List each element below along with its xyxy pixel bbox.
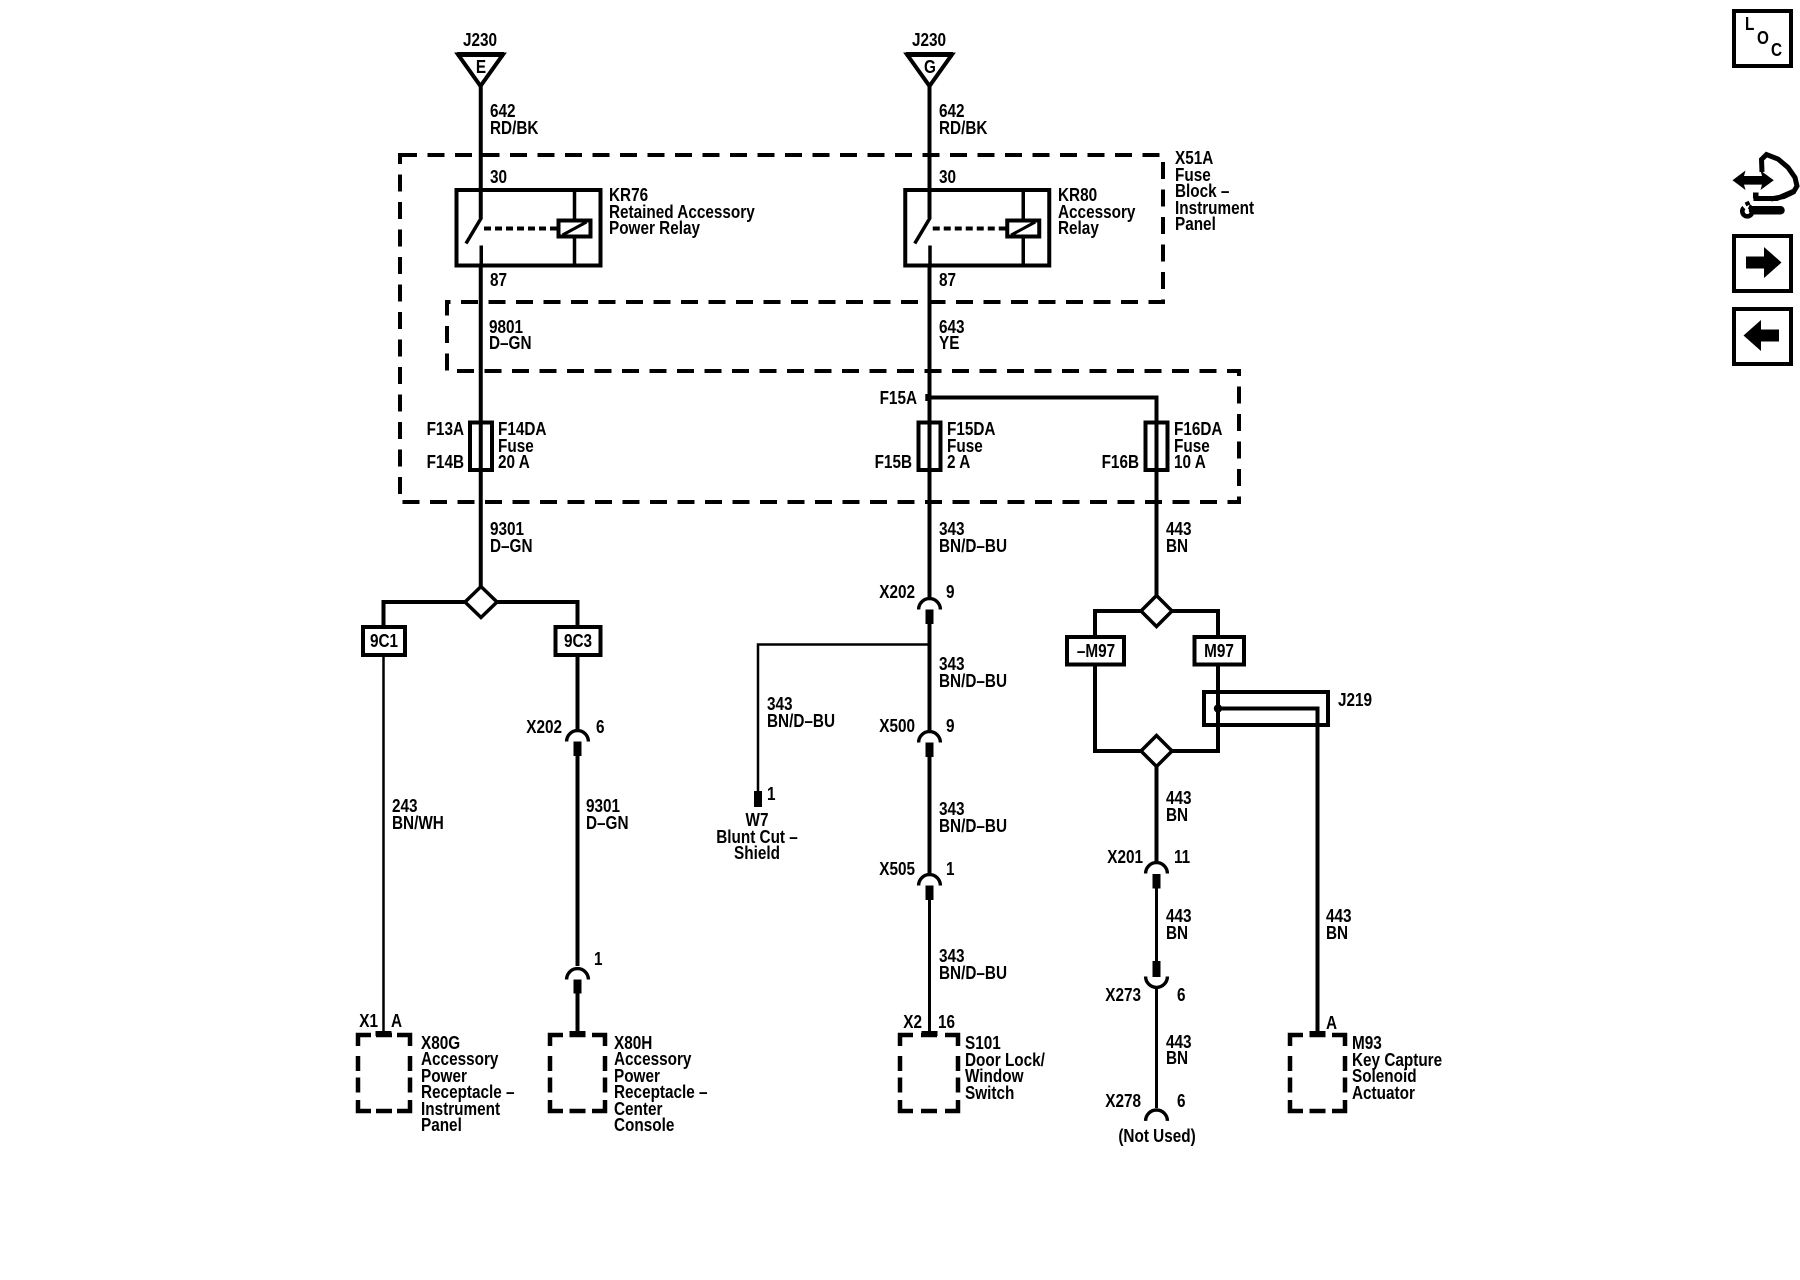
label wire 343 BN/D-BU below X202	[939, 656, 1007, 689]
connector pin 1 symbol above X80H	[567, 969, 589, 994]
connector X278 pin 6 symbol (not used)	[1146, 1110, 1168, 1121]
label connector X202 pin 9	[745, 584, 915, 601]
wire 343 BN/D-BU fuse F15DA to connector X202 pin 9	[928, 470, 932, 598]
wire 443 BN fuse F16DA to splice diamond	[1155, 470, 1159, 596]
wire splice to M97	[1172, 611, 1218, 637]
pin tick at X80G	[376, 1031, 392, 1036]
label X1 pin A	[208, 1013, 378, 1030]
connector X505 pin 1 symbol	[919, 875, 941, 900]
label G in triangle	[845, 59, 1015, 76]
label wire 443 BN below X273	[1166, 1034, 1192, 1067]
label X2 pin 16	[752, 1014, 922, 1031]
wire branch 343 BN/D-BU to W7	[758, 645, 930, 792]
label W7 blunt cut shield	[672, 812, 842, 862]
label wire 343 BN/D-BU below X500	[939, 801, 1007, 834]
label connector X278 pin 6	[971, 1093, 1141, 1110]
pin tick at X80H	[570, 1031, 586, 1036]
wire 443 BN splice to X201	[1155, 767, 1159, 863]
component box -M97	[1067, 637, 1124, 665]
W7 blunt cut terminal bar	[754, 791, 762, 807]
nav icon lower swoosh	[1754, 192, 1794, 199]
component S101 dashed box	[900, 1035, 958, 1111]
label F15A	[747, 390, 917, 407]
component X80H dashed box	[550, 1035, 605, 1111]
label 9C1	[299, 633, 469, 650]
wire 643 YE relay KR80 pin 87 to fuse F15DA	[928, 266, 932, 423]
relay KR80 fixed contact stub	[928, 246, 932, 266]
LOC box icon	[1734, 11, 1791, 66]
label relay KR76	[609, 187, 755, 237]
label J230 (E)	[463, 32, 497, 49]
connector X201 pin 11 symbol	[1146, 863, 1168, 889]
wire 9301 D-GN fuse F14DA to splice diamond	[479, 470, 483, 587]
label actuator M93	[1352, 1035, 1442, 1101]
fuse F16DA	[1146, 423, 1168, 471]
label F13A	[294, 421, 464, 438]
label pin 30 KR76	[490, 169, 507, 186]
label LOC letters	[1745, 16, 1754, 33]
label wire 443 BN below splice	[1166, 790, 1192, 823]
wire -M97 to lower splice	[1095, 665, 1141, 752]
label pin 30 KR80	[939, 169, 956, 186]
fuse block X51A dashed outline	[400, 155, 1239, 502]
nav icon double-headed arrow	[1733, 171, 1774, 191]
wire splice to -M97	[1095, 611, 1141, 637]
label connector X201 pin 11	[973, 849, 1143, 866]
label M97	[1134, 643, 1304, 660]
label wire 9801 D-GN	[489, 319, 532, 352]
label M93 pin A	[1326, 1015, 1337, 1032]
relay KR76 coil slash	[563, 222, 587, 235]
label wire 642 RD/BK left	[490, 103, 538, 136]
connector box 9C3	[556, 627, 601, 655]
label connector X505 pin 1	[745, 861, 915, 878]
label connector X500 pin 9	[745, 718, 915, 735]
label receptacle X80H	[614, 1035, 708, 1134]
label pin 87 KR76	[490, 272, 507, 289]
wire 642 RD/BK from J230 E to relay KR76 pin 30	[479, 86, 483, 190]
splice diamond top right column	[1141, 596, 1172, 627]
junction dot J219	[1214, 704, 1222, 712]
relay KR80 actuation dashed link	[933, 227, 1006, 231]
label wire 642 RD/BK right	[939, 103, 987, 136]
relay KR80 coil box	[1007, 221, 1039, 237]
splice pack J230 G triangle	[906, 55, 953, 87]
label connector X273 pin 6	[971, 987, 1141, 1004]
label fuse F15DA	[947, 421, 995, 471]
connector box 9C1	[363, 627, 405, 655]
label F14B	[294, 454, 464, 471]
splice pack J230 E triangle	[457, 55, 504, 87]
label wire 343 BN/D-BU W7 branch	[767, 696, 835, 729]
label wire 443 BN J219 branch	[1326, 908, 1352, 941]
relay KR80 coil slash	[1011, 222, 1035, 235]
relay KR80 switch blade	[915, 218, 931, 244]
relay KR76 actuation dashed link	[484, 227, 557, 231]
label F15B	[742, 454, 912, 471]
relay KR76 coil box	[559, 221, 591, 237]
relay KR76 fixed contact stub	[480, 246, 484, 266]
label wire 343 BN/D-BU first	[939, 521, 1007, 554]
wire J219 internal to M93 drop	[1218, 709, 1318, 1034]
label -M97	[1011, 643, 1181, 660]
relay KR80 coil feed wires	[1022, 190, 1026, 221]
wire 9801 D-GN relay KR76 pin 87 to fuse F14DA	[479, 266, 483, 423]
label switch S101	[965, 1035, 1045, 1101]
wire 443 BN X273 to X278	[1155, 989, 1158, 1108]
fuse F15DA	[919, 423, 941, 471]
label receptacle X80G	[421, 1035, 515, 1134]
wire branch F15A to fuse F16DA	[928, 398, 1157, 423]
relay KR76 box	[457, 190, 601, 266]
wire 343 BN/D-BU X505 to S101	[928, 900, 931, 1033]
relay KR80 switch pin wire	[928, 190, 932, 218]
wire splice to 9C3	[497, 602, 578, 627]
label F16B	[969, 454, 1139, 471]
wire 343 BN/D-BU X202 to X500	[928, 624, 932, 731]
label wire 9301 D-GN upper	[490, 521, 533, 554]
back arrow box icon	[1734, 309, 1791, 364]
label wire 9301 D-GN lower	[586, 798, 629, 831]
pin tick at M93	[1310, 1031, 1326, 1036]
label W7 pin 1	[767, 786, 776, 803]
label wire 643 YE	[939, 319, 965, 352]
label wire 443 BN first	[1166, 521, 1192, 554]
wire 9C3 to connector X202 pin 6	[576, 655, 580, 731]
label not used	[1072, 1128, 1242, 1145]
wire 642 RD/BK from J230 G to relay KR80 pin 30	[928, 86, 932, 190]
component M93 dashed box	[1290, 1035, 1345, 1111]
nav icon curved arrow outline	[1762, 155, 1798, 200]
label fuse F14DA	[498, 421, 546, 471]
label pin 1 above X80H	[594, 951, 603, 968]
relay KR76 coil feed wires	[573, 190, 577, 221]
label J219	[1338, 692, 1372, 709]
wire pin1 to X80H	[576, 994, 580, 1034]
label connector X202 pin 6	[392, 719, 562, 736]
wire splice to 9C1	[384, 602, 466, 627]
label relay KR80	[1058, 187, 1135, 237]
wire M97 to lower splice	[1172, 665, 1218, 752]
relay KR76 switch pin wire	[479, 190, 483, 218]
wire 243 BN/WH 9C1 to X80G	[382, 655, 385, 1033]
label wire 443 BN below X201	[1166, 908, 1192, 941]
label wire 343 BN/D-BU below X505	[939, 948, 1007, 981]
wire 443 BN X201 to X273	[1155, 889, 1158, 962]
relay KR76 switch blade	[466, 218, 482, 244]
label wire 243 BN/WH	[392, 798, 444, 831]
label fuse block X51A	[1175, 150, 1254, 233]
wire 343 BN/D-BU X500 to X505	[928, 757, 932, 874]
fuse F14DA	[470, 423, 492, 471]
label 9C3	[493, 633, 663, 650]
nav icon wrench	[1740, 203, 1781, 217]
pin tick at S101	[922, 1031, 938, 1036]
connector X202 pin 6 symbol	[567, 731, 589, 756]
label E in triangle	[396, 59, 566, 76]
splice diamond bottom right column	[1141, 736, 1172, 767]
connector X202 pin 9 symbol	[919, 599, 941, 624]
forward arrow box icon	[1734, 236, 1791, 291]
component J219 box	[1204, 692, 1328, 725]
relay KR80 box	[905, 190, 1049, 266]
label J230 (G)	[912, 32, 946, 49]
component box M97	[1195, 637, 1245, 665]
label fuse F16DA	[1174, 421, 1222, 471]
connector X273 pin 6 symbol	[1146, 961, 1168, 987]
label pin 87 KR80	[939, 272, 956, 289]
component X80G dashed box	[358, 1035, 410, 1111]
connector X500 pin 9 symbol	[919, 732, 941, 757]
splice diamond S left column	[465, 587, 497, 618]
wire 9301 D-GN X202 to X80H	[576, 756, 580, 966]
